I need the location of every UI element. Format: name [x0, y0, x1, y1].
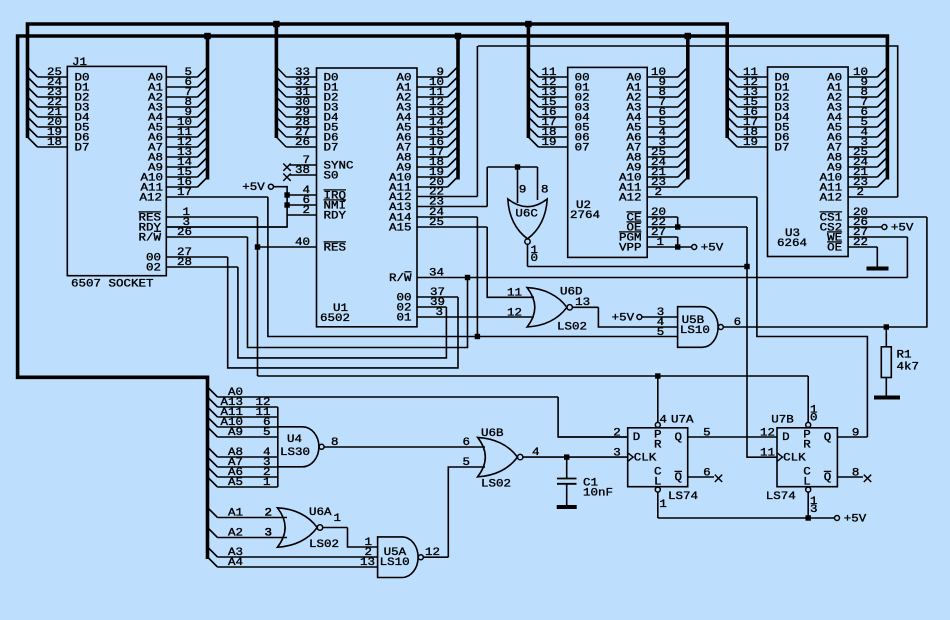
svg-text:A15: A15: [389, 223, 412, 235]
pin J1.23 D2: [38, 96, 68, 98]
wire C1 bottom: [566, 484, 568, 505]
pin U3.21 A10: [848, 176, 877, 178]
node U2 address trunk junction: [685, 33, 691, 39]
svg-text:CLK: CLK: [783, 453, 806, 465]
node U1 data trunk junction: [273, 21, 279, 27]
svg-text:2: 2: [303, 205, 311, 217]
wire data-bus trunk (J1 left / top / U3 left): [28, 24, 728, 138]
pin U3.19 D7: [737, 146, 767, 148]
pin U1.30 D3: [286, 106, 316, 108]
svg-text:0: 0: [531, 253, 539, 265]
pin U1.20 A11: [417, 186, 448, 188]
node junction A14/J1.A12: [475, 334, 480, 339]
pin U3.3 A7: [848, 146, 877, 148]
pin J1.13 A8: [166, 156, 197, 158]
node U2 data trunk junction: [525, 21, 531, 27]
pin U2.8 A2: [647, 96, 678, 98]
svg-text:26: 26: [295, 137, 310, 149]
node A5 tap from address bus: [208, 477, 218, 487]
pin U2.17 O5: [538, 126, 567, 128]
svg-text:D7: D7: [324, 143, 339, 155]
svg-text:R/W: R/W: [139, 233, 162, 245]
pin U2.15 O3: [538, 106, 567, 108]
svg-text:A9: A9: [228, 427, 243, 439]
pin U1.32 D1: [286, 86, 316, 88]
svg-text:VPP: VPP: [619, 243, 642, 255]
pin U3.24 A9: [848, 166, 877, 168]
pin U1.37 O0: [417, 296, 458, 298]
svg-text:1: 1: [263, 477, 271, 489]
svg-text:6502: 6502: [320, 313, 350, 325]
node junction U6C pin9: [515, 164, 520, 169]
wire U2 address trunk: [686, 36, 690, 180]
svg-text:Q: Q: [675, 432, 683, 444]
pin U2.20 CE: [647, 216, 678, 218]
svg-text:A1: A1: [228, 508, 243, 520]
node junction CE/OE: [675, 224, 680, 229]
pin U1.39 O2: [417, 306, 446, 308]
svg-text:11: 11: [507, 288, 522, 300]
pin U2.19 O7: [538, 146, 567, 148]
svg-text:A5: A5: [228, 477, 243, 489]
pin U3.8 A2: [848, 96, 877, 98]
wire C1 top: [566, 457, 568, 478]
svg-text:8: 8: [331, 437, 339, 449]
pin J1.10 A5: [166, 126, 197, 128]
node A3 tap from address bus: [208, 547, 218, 557]
pin U5B.6 output: [724, 326, 928, 328]
pin U1.33 D0: [286, 76, 316, 78]
pin U1.22 A12: [417, 196, 477, 198]
svg-text:Q: Q: [824, 432, 832, 444]
svg-text:LS02: LS02: [481, 478, 511, 490]
svg-text:3: 3: [613, 448, 621, 460]
pin U3.6 A4: [848, 116, 877, 118]
node A11 tap from address bus: [208, 407, 218, 417]
pin U3.17 D5: [737, 126, 767, 128]
nand-gate U4 LS30 input bar: [277, 407, 279, 487]
svg-text:2: 2: [265, 508, 273, 520]
svg-text:22: 22: [853, 237, 868, 249]
node A6 tap from address bus: [208, 467, 218, 477]
svg-text:LS10: LS10: [680, 325, 710, 337]
svg-text:2: 2: [613, 428, 621, 440]
wire U3.OE to ground: [876, 247, 878, 267]
svg-text:02: 02: [146, 263, 161, 275]
pin U2.11 O0: [538, 76, 567, 78]
svg-text:A12: A12: [619, 193, 642, 205]
nand-gate U5A LS10: [378, 537, 418, 578]
wire U6C output down to U7B clock: [747, 267, 777, 458]
pin U1.40 RES: [258, 246, 317, 248]
pin U1.11 A2: [417, 96, 448, 98]
svg-text:A2: A2: [228, 528, 243, 540]
svg-text:9: 9: [852, 428, 860, 440]
pin U2.22 OE: [647, 226, 747, 228]
wire RES line to U7 presets: [258, 375, 809, 377]
svg-text:3: 3: [265, 528, 273, 540]
svg-text:+5V: +5V: [612, 313, 635, 325]
flip-flop U7B LS74 body: [777, 428, 837, 487]
wire A0 down to U7A.D: [558, 397, 628, 437]
svg-text:U6B: U6B: [481, 428, 504, 440]
wire U1 address trunk: [456, 36, 460, 180]
svg-text:01: 01: [397, 313, 412, 325]
svg-text:D7: D7: [775, 143, 790, 155]
pin U1.10 A1: [417, 86, 448, 88]
pin U2.27 PGM: [647, 236, 678, 238]
pin U1.34 R/W: [417, 277, 907, 279]
pin U1.17 A8: [417, 156, 448, 158]
wire U1.A15 down to U6D pin 11: [487, 227, 534, 297]
svg-text:34: 34: [429, 268, 444, 280]
pin U7B.13 clear bubble: [806, 487, 811, 492]
pin U2.2 A12: [647, 196, 757, 198]
pin U3.15 D3: [737, 106, 767, 108]
pin U3.4 A6: [848, 136, 877, 138]
power +5V at U3 CS2: [882, 225, 887, 230]
wire +5V to pullup column: [166, 187, 287, 227]
svg-text:A12: A12: [820, 193, 843, 205]
pin U3.18 D6: [737, 136, 767, 138]
svg-text:+5V: +5V: [891, 223, 914, 235]
pin U2.12 O1: [538, 86, 567, 88]
pin U3.2 A12: [848, 196, 898, 198]
wire U5B output up to U3.CS1: [926, 217, 928, 327]
nand-gate U4 LS30 body: [278, 427, 319, 467]
svg-text:3: 3: [810, 504, 818, 516]
svg-text:U6A: U6A: [309, 507, 332, 519]
node A4 tap from address bus: [208, 557, 218, 567]
wire J1.O2 to U1.O2: [238, 267, 447, 358]
svg-text:U6C: U6C: [515, 209, 538, 221]
pin U2.10 A0: [647, 76, 678, 78]
pin U1.31 D2: [286, 96, 316, 98]
svg-text:RDY: RDY: [324, 211, 347, 223]
wire J1 address trunk: [206, 36, 210, 180]
wire R1 bottom: [885, 378, 887, 396]
svg-text:J1: J1: [72, 57, 87, 69]
svg-text:R1: R1: [897, 350, 912, 362]
pin U3.22 OE: [848, 246, 877, 248]
pin J1.21 D4: [38, 116, 68, 118]
node U1 address trunk junction: [455, 33, 461, 39]
wire U3.WE to R/W line: [906, 237, 908, 278]
pin U3.13 D2: [737, 96, 767, 98]
pin J1.6 A1: [166, 86, 197, 88]
svg-text:3: 3: [436, 307, 444, 319]
ground at U3 OE: [867, 267, 889, 271]
connector J1 6507 socket body: [67, 66, 166, 275]
wire U1.A12 up to top A12 line: [476, 46, 478, 197]
svg-text:6: 6: [703, 468, 711, 480]
svg-text:U7A: U7A: [671, 415, 694, 427]
flip-flop U7A LS74 body: [628, 428, 688, 487]
svg-text:19: 19: [542, 137, 557, 149]
svg-text:1: 1: [659, 499, 667, 511]
pin J1.19 D6: [38, 136, 68, 138]
node A2 tap from address bus: [208, 528, 218, 538]
pin U1.15 A6: [417, 136, 448, 138]
svg-text:1: 1: [334, 513, 342, 525]
pin J1.28 O2: [166, 266, 238, 268]
svg-text:28: 28: [177, 257, 192, 269]
pin J1.3 RDY: [166, 226, 287, 228]
svg-text:Q: Q: [824, 472, 832, 484]
svg-text:25: 25: [429, 217, 444, 229]
svg-text:LS74: LS74: [766, 491, 796, 503]
svg-text:17: 17: [177, 187, 192, 199]
pin U2.6 A4: [647, 116, 678, 118]
pin U5B.3: [642, 316, 678, 318]
node J1 address trunk junction: [204, 33, 210, 39]
wire J1.R/W down and to U1.R/W junction: [248, 237, 468, 348]
pin U2.9 A1: [647, 86, 678, 88]
pin U1.6 NMI: [287, 204, 316, 206]
pin U3.10 A0: [848, 76, 877, 78]
pin U2.4 A6: [647, 136, 678, 138]
pin U3.16 D4: [737, 116, 767, 118]
pin J1.12 A7: [166, 146, 197, 148]
pin J1.14 A9: [166, 166, 197, 168]
pin J1.24 D1: [38, 86, 68, 88]
svg-text:9: 9: [519, 185, 527, 197]
svg-text:6507 SOCKET: 6507 SOCKET: [71, 278, 154, 290]
pin U3.23 A11: [848, 186, 877, 188]
node A1 tap from address bus: [208, 508, 218, 518]
pin U1.28 D5: [286, 126, 316, 128]
node A10 tap from address bus: [208, 417, 218, 427]
nor-gate U6C LS02: [508, 199, 547, 239]
svg-text:8: 8: [852, 468, 860, 480]
wire U6C output to U2 CE/OE and U7B clock: [528, 266, 748, 268]
pin U1.2 RDY: [287, 214, 316, 216]
pin U1.16 A7: [417, 146, 448, 148]
pin U3.9 A1: [848, 86, 877, 88]
svg-text:5: 5: [657, 327, 665, 339]
ram U3 6264 body: [768, 67, 849, 257]
pin J1.18 D7: [38, 146, 68, 148]
node junction +5V/IRQ: [284, 192, 289, 197]
svg-text:13: 13: [360, 557, 375, 569]
pin U7A.6 Qbar no-connect: [688, 476, 714, 478]
node junction U7B clear: [806, 515, 811, 520]
svg-text:CLK: CLK: [634, 453, 657, 465]
nor-gate U6A LS02: [277, 508, 317, 547]
svg-text:10nF: 10nF: [583, 488, 613, 500]
pin U1.13 A4: [417, 116, 448, 118]
wire J1.O0 to U1.O0: [228, 257, 458, 368]
pin U1.9 A0: [417, 76, 448, 78]
pin U7B.10 preset bubble: [806, 422, 811, 427]
svg-text:LS10: LS10: [380, 557, 410, 569]
pin U3.7 A3: [848, 106, 877, 108]
pin U1.7 SYNC no-connect: [290, 164, 317, 166]
pin J1.27 O0: [166, 256, 227, 258]
node junction U5B output to R1: [884, 324, 889, 329]
pin J1.11 A6: [166, 136, 197, 138]
ground at R1: [874, 396, 900, 400]
svg-text:A12: A12: [140, 193, 163, 205]
svg-text:0: 0: [810, 413, 818, 425]
svg-text:12: 12: [760, 428, 775, 440]
wire U1 data trunk: [275, 24, 279, 138]
resistor R1 4k7: [881, 347, 891, 378]
pin U1.23 A13: [417, 206, 487, 208]
pin U1.29 D4: [286, 116, 316, 118]
capacitor C1 10nF: [557, 478, 577, 480]
nor-gate U6B LS02: [478, 437, 518, 476]
pin U3.12 D1: [737, 86, 767, 88]
node junction U6C output: [744, 264, 749, 269]
wire U1.A14 down to U5B pin5 line: [476, 217, 478, 337]
svg-text:LS74: LS74: [668, 491, 698, 503]
svg-text:4k7: 4k7: [897, 362, 920, 374]
pin U2.25 A8: [647, 156, 678, 158]
pin U2.18 O6: [538, 136, 567, 138]
pin U5A.12 output wire to U6B pin5: [423, 556, 448, 558]
svg-text:6: 6: [463, 437, 471, 449]
wire U1.A13 up to U6C inputs: [486, 167, 488, 207]
pin U2.21 A10: [647, 176, 678, 178]
pin U3.20 CS1: [848, 216, 927, 218]
svg-text:D: D: [782, 432, 790, 444]
ground at C1: [557, 505, 577, 509]
svg-text:D: D: [633, 432, 641, 444]
svg-text:18: 18: [47, 137, 62, 149]
pin J1.17 A12: [166, 196, 268, 198]
pin U3.26 CS2: [848, 226, 882, 228]
pin U2.1 VPP: [647, 246, 692, 248]
pin U7A.4 preset bubble: [655, 422, 660, 427]
pin U1.26 D7: [286, 146, 316, 148]
pin J1.16 A11: [166, 186, 197, 188]
wire R1 top: [885, 327, 887, 347]
svg-text:12: 12: [425, 547, 440, 559]
pin J1.20 D5: [38, 126, 68, 128]
pin J1.1 RES: [166, 216, 257, 218]
pin J1.15 A10: [166, 176, 197, 178]
svg-text:19: 19: [743, 137, 758, 149]
pin U3.25 A8: [848, 156, 877, 158]
pin U6C.10 output: [527, 244, 529, 267]
pin J1.22 D3: [38, 106, 68, 108]
pin U7A.5 Q output to U7B.D: [688, 436, 777, 438]
pin U4.8 output wire to U6B pin6: [324, 446, 485, 448]
svg-text:4: 4: [532, 447, 540, 459]
node junction RES: [255, 244, 260, 249]
pin U1.25 A15: [417, 226, 487, 228]
wire address-bus trunk (bottom-left / left / top / U3 right): [18, 36, 888, 559]
pin U7B.9 Q output to U2.A12: [837, 436, 867, 438]
svg-text:LS30: LS30: [280, 447, 310, 459]
nand-gate U5B LS10: [678, 307, 718, 348]
svg-text:U4: U4: [287, 434, 302, 446]
pin U1.19 A10: [417, 176, 448, 178]
svg-text:R/W: R/W: [389, 273, 412, 285]
node junction RES to U7A preset: [655, 373, 660, 378]
pin U3.27 WE: [848, 236, 907, 238]
pin U1.14 A5: [417, 126, 448, 128]
svg-text:5: 5: [703, 428, 711, 440]
svg-text:L: L: [803, 476, 811, 488]
pin U2.7 A3: [647, 106, 678, 108]
pin U1.27 D6: [286, 136, 316, 138]
pin U6C.8: [537, 167, 539, 200]
eprom U2 2764 body: [568, 67, 648, 257]
svg-text:2: 2: [857, 187, 865, 199]
nor-gate U6D LS02: [527, 288, 567, 327]
svg-text:8: 8: [541, 185, 549, 197]
svg-text:LS02: LS02: [309, 539, 339, 551]
wire J1.A12 down to U5B pin5 line: [268, 197, 678, 337]
pin U2.16 O4: [538, 116, 567, 118]
svg-text:6264: 6264: [777, 238, 807, 250]
pin U1.24 A14: [417, 216, 477, 218]
node A9 tap from address bus: [208, 427, 218, 437]
pin U6A.1 output wire to U5A pin1: [322, 527, 347, 529]
svg-text:R: R: [654, 439, 662, 451]
pin U1.3 O1: [417, 316, 534, 318]
pin U2.13 O2: [538, 96, 567, 98]
power +5V at U2 VPP: [692, 245, 697, 250]
svg-text:R: R: [803, 439, 811, 451]
node junction R/W: [465, 275, 470, 280]
svg-text:S0: S0: [324, 171, 339, 183]
svg-text:40: 40: [295, 237, 310, 249]
svg-text:5: 5: [263, 427, 271, 439]
pin J1.8 A3: [166, 106, 197, 108]
svg-text:07: 07: [575, 143, 590, 155]
node junction PGM/VPP: [675, 244, 680, 249]
pin U2.24 A9: [647, 166, 678, 168]
svg-text:4: 4: [659, 415, 667, 427]
pin U1.18 A9: [417, 166, 448, 168]
pin U7B.8 Qbar no-connect: [837, 476, 863, 478]
wire U6C input bar: [487, 166, 537, 168]
svg-text:Q: Q: [675, 472, 683, 484]
pin J1.9 A4: [166, 116, 197, 118]
pin J1.26 R/W: [166, 236, 247, 238]
svg-text:LS02: LS02: [557, 322, 587, 334]
node A8 tap from address bus: [208, 447, 218, 457]
svg-text:RES: RES: [324, 243, 347, 255]
svg-text:+5V: +5V: [844, 514, 867, 526]
wire U2 CE/OE down to U6C output line: [746, 227, 748, 267]
node A7 tap from address bus: [208, 457, 218, 467]
pin U6C.9: [517, 167, 519, 203]
power +5V at U7 clears: [835, 516, 840, 521]
svg-text:11: 11: [760, 448, 775, 460]
svg-text:1: 1: [657, 237, 665, 249]
pin U2.3 A7: [647, 146, 678, 148]
pin U3.11 D0: [737, 76, 767, 78]
svg-text:U7B: U7B: [771, 415, 794, 427]
svg-text:6: 6: [734, 317, 742, 329]
svg-text:OE: OE: [827, 243, 842, 255]
pin J1.7 A2: [166, 96, 197, 98]
pin U1.12 A3: [417, 106, 448, 108]
svg-text:12: 12: [507, 308, 522, 320]
node junction C1 tap: [564, 454, 569, 459]
wire top A12 line to U3.A12: [478, 46, 898, 197]
pin J1.25 D0: [38, 76, 68, 78]
svg-text:D7: D7: [75, 143, 90, 155]
pin U2.23 A11: [647, 186, 678, 188]
pin U6B.4 output wire to U7A clock: [523, 456, 628, 458]
svg-text:5: 5: [463, 457, 471, 469]
pin U7A.2 D input: [558, 436, 628, 438]
